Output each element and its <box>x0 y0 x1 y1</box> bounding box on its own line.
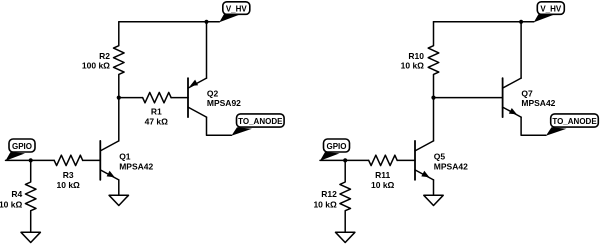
resistor R2 <box>114 22 125 98</box>
wire: Q5 collector to junction <box>433 98 435 141</box>
svg-text:10 kΩ: 10 kΩ <box>401 61 425 71</box>
svg-text:10 kΩ: 10 kΩ <box>57 180 81 190</box>
transistor Q7 labels <box>521 88 555 108</box>
svg-text:TO_ANODE: TO_ANODE <box>552 117 597 126</box>
junction: right R10/Q7/Q5 node <box>431 96 435 100</box>
wire: junction to R11 <box>345 159 369 161</box>
wire: junction to R1 <box>119 97 143 99</box>
wire: right junction to Q7 base <box>434 97 503 99</box>
junction: left R2/R1/Q1 node <box>117 96 121 100</box>
transistor Q5 (NPN MPSA42) <box>415 141 434 180</box>
svg-text:GPIO: GPIO <box>326 142 346 151</box>
junction: left rail node <box>204 20 208 24</box>
svg-text:MPSA42: MPSA42 <box>119 161 153 171</box>
transistor Q2 (PNP MPSA92) <box>188 78 207 117</box>
svg-text:Q5: Q5 <box>434 152 446 162</box>
resistor R10 <box>428 22 439 98</box>
svg-text:R4: R4 <box>11 189 22 199</box>
wire: R11 to Q5 base <box>397 159 415 161</box>
transistor Q1 (NPN MPSA42) <box>100 141 119 180</box>
resistor R3 <box>54 155 83 165</box>
wire: Q2 emitter to rail <box>206 22 208 78</box>
svg-text:TO_ANODE: TO_ANODE <box>238 117 283 126</box>
resistor R2 labels <box>82 51 110 70</box>
resistor R11 labels <box>371 170 395 190</box>
net flag TO_ANODE (right) <box>546 114 598 136</box>
svg-text:47 kΩ: 47 kΩ <box>145 117 169 127</box>
ground under R12 <box>336 232 355 242</box>
svg-text:V_HV: V_HV <box>540 4 562 13</box>
svg-text:Q2: Q2 <box>207 88 219 98</box>
transistor Q2 labels <box>207 88 241 108</box>
svg-text:R1: R1 <box>151 107 162 117</box>
svg-text:10 kΩ: 10 kΩ <box>313 199 337 209</box>
junction: right GPIO node <box>343 158 347 162</box>
wire: Q7 collector to rail <box>520 22 522 78</box>
junction: right rail node <box>519 20 523 24</box>
ground under Q5 <box>424 195 443 205</box>
wire: Q5 emitter to ground <box>433 180 435 195</box>
transistor Q5 labels <box>434 152 468 172</box>
svg-text:MPSA42: MPSA42 <box>521 98 555 108</box>
svg-text:R3: R3 <box>63 170 74 180</box>
net flag V_HV (left) <box>219 2 250 23</box>
wire: R1 to Q2 base <box>171 97 188 99</box>
transistor Q7 (NPN MPSA42) <box>503 78 521 117</box>
svg-text:Q1: Q1 <box>119 152 131 162</box>
wire: right V_HV top rail <box>434 21 534 23</box>
resistor R12 labels <box>313 189 337 209</box>
resistor R3 labels <box>57 170 81 190</box>
wire: R3 to Q1 base <box>83 159 101 161</box>
wire: left V_HV top rail <box>119 21 220 23</box>
net flag GPIO (right) <box>320 139 350 161</box>
wire: GPIO flag to junction <box>6 159 31 161</box>
svg-text:10 kΩ: 10 kΩ <box>0 199 22 209</box>
wire: Q1 emitter to ground <box>118 180 120 195</box>
resistor R1 labels <box>145 107 169 127</box>
resistor R12 <box>340 160 351 232</box>
ground under Q1 <box>109 195 128 205</box>
ground under R4 <box>21 232 40 242</box>
resistor R10 labels <box>401 51 425 70</box>
wire: Q2 collector to TO_ANODE <box>207 117 232 135</box>
resistor R4 labels <box>0 189 23 209</box>
net flag TO_ANODE (left) <box>231 114 284 136</box>
wire: right GPIO flag to junction <box>320 159 345 161</box>
resistor R11 <box>369 155 398 165</box>
resistor R1 <box>143 92 172 102</box>
svg-text:GPIO: GPIO <box>12 142 32 151</box>
svg-text:MPSA92: MPSA92 <box>207 98 241 108</box>
net flag V_HV (right) <box>534 2 565 23</box>
svg-text:Q7: Q7 <box>521 88 533 98</box>
svg-text:V_HV: V_HV <box>226 4 248 13</box>
resistor R4 <box>25 160 36 232</box>
transistor Q1 labels <box>119 152 153 172</box>
junction: left GPIO node <box>29 158 33 162</box>
svg-text:MPSA42: MPSA42 <box>434 161 468 171</box>
net flag GPIO (left) <box>6 139 36 161</box>
wire: Q1 collector to junction <box>118 98 120 141</box>
svg-text:R11: R11 <box>375 170 390 180</box>
wire: junction to R3 <box>31 159 55 161</box>
svg-text:10 kΩ: 10 kΩ <box>371 180 395 190</box>
svg-text:100 kΩ: 100 kΩ <box>82 61 110 71</box>
wire: Q7 emitter to TO_ANODE <box>521 117 546 135</box>
svg-text:R12: R12 <box>321 189 337 199</box>
